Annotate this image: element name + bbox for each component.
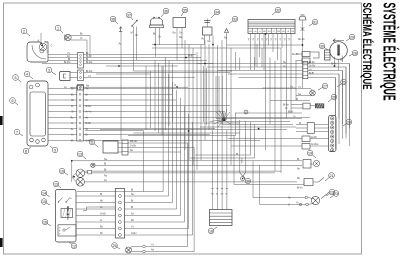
svg-text:Gr-Bl: Gr-Bl bbox=[100, 213, 106, 216]
svg-text:Br: Br bbox=[131, 200, 134, 203]
svg-text:35: 35 bbox=[183, 8, 187, 12]
svg-text:Ar: Ar bbox=[100, 219, 103, 222]
svg-text:Gr: Gr bbox=[287, 38, 290, 41]
junction star bbox=[222, 118, 225, 121]
junction headlamp A bbox=[40, 42, 42, 44]
svg-text:Bi-Ro: Bi-Ro bbox=[64, 61, 71, 64]
svg-text:Gr: Gr bbox=[260, 38, 263, 41]
svg-text:Bi-Vs: Bi-Vs bbox=[297, 187, 303, 189]
callout 22 bbox=[329, 189, 335, 195]
wire Br from position lamp bbox=[71, 35, 90, 37]
callout 12 bbox=[71, 243, 77, 249]
ground terminal 20 bbox=[239, 120, 241, 173]
switch 38 bbox=[120, 27, 122, 32]
wires instrument cluster bbox=[48, 88, 77, 90]
connector strip small bbox=[78, 85, 84, 91]
callout 36 bbox=[163, 8, 169, 14]
callout 23 bbox=[333, 191, 339, 197]
callout 7 bbox=[14, 129, 20, 135]
resistor 26 bbox=[303, 103, 310, 109]
svg-text:34: 34 bbox=[215, 10, 219, 14]
svg-text:A: A bbox=[38, 39, 40, 43]
connector strip 2 bbox=[115, 189, 124, 239]
svg-text:B: B bbox=[45, 40, 47, 44]
svg-text:3: 3 bbox=[48, 68, 50, 72]
CDI unit 18 bbox=[210, 210, 233, 226]
indicator lamp 27 bbox=[310, 90, 316, 96]
magneto flywheel 28-29 bbox=[330, 42, 348, 60]
svg-text:6: 6 bbox=[12, 99, 14, 103]
callout 3 bbox=[46, 67, 52, 73]
svg-text:Gr: Gr bbox=[71, 88, 74, 91]
svg-text:Gr-Bl: Gr-Bl bbox=[311, 136, 317, 139]
svg-text:Ar: Ar bbox=[71, 122, 74, 125]
svg-text:Gr: Gr bbox=[179, 32, 182, 35]
svg-text:C: C bbox=[51, 44, 53, 48]
svg-text:5: 5 bbox=[15, 76, 17, 80]
left registration tab lower bbox=[0, 238, 3, 247]
license plate lamp bbox=[126, 247, 132, 253]
svg-text:M: M bbox=[296, 99, 298, 101]
svg-text:Gr: Gr bbox=[274, 38, 277, 41]
svg-text:Gr: Gr bbox=[283, 65, 286, 68]
svg-text:Bi-M: Bi-M bbox=[288, 112, 293, 114]
callout 25 bbox=[341, 79, 347, 85]
svg-text:Bi-Bl: Bi-Bl bbox=[309, 73, 314, 75]
svg-text:32: 32 bbox=[276, 8, 280, 12]
tail lamp lower bbox=[76, 178, 84, 186]
connector 11 bbox=[122, 140, 128, 155]
wire to stop lamp upper bbox=[253, 161, 295, 198]
svg-text:Mn-Ne: Mn-Ne bbox=[130, 141, 138, 143]
callout 35 bbox=[182, 7, 188, 13]
svg-text:Bi-Ro: Bi-Ro bbox=[86, 61, 93, 64]
svg-text:14: 14 bbox=[42, 191, 46, 195]
junction headlamp B bbox=[41, 44, 43, 46]
svg-text:Gr: Gr bbox=[251, 38, 254, 41]
switch 21 bbox=[304, 179, 313, 186]
HT coil 30 bbox=[325, 50, 331, 60]
diode 33 bbox=[225, 29, 229, 33]
svg-text:M: M bbox=[216, 194, 218, 196]
svg-text:30: 30 bbox=[320, 44, 324, 48]
svg-text:Gr: Gr bbox=[247, 38, 250, 41]
condenser 34 bbox=[203, 27, 213, 35]
wire headlamp feed bbox=[40, 33, 42, 44]
left connector of strip24 bbox=[307, 123, 314, 134]
headlamp bulb bbox=[39, 43, 47, 51]
callout 20 bbox=[245, 178, 251, 184]
wires right strip bbox=[308, 63, 350, 65]
svg-text:20: 20 bbox=[246, 179, 250, 183]
callout 27 bbox=[322, 83, 328, 89]
svg-text:25: 25 bbox=[342, 80, 346, 84]
svg-text:Gr: Gr bbox=[100, 206, 103, 209]
svg-text:Br: Br bbox=[104, 168, 107, 171]
svg-text:21: 21 bbox=[330, 174, 334, 178]
wires from junction box 32 bbox=[250, 34, 252, 61]
wires strip mid right bbox=[84, 72, 231, 74]
svg-text:16: 16 bbox=[43, 220, 47, 224]
svg-text:1: 1 bbox=[57, 26, 59, 30]
callout 9 bbox=[52, 147, 58, 153]
CDI wires bbox=[212, 130, 214, 210]
svg-text:Bi-Ro: Bi-Ro bbox=[86, 139, 93, 142]
svg-text:Gr-Rs: Gr-Rs bbox=[309, 65, 316, 68]
stop lamp 23 bbox=[311, 196, 319, 204]
callout 2 bbox=[21, 28, 27, 34]
svg-text:28: 28 bbox=[353, 51, 357, 55]
svg-text:Bi-Rs: Bi-Rs bbox=[309, 62, 315, 64]
callout 21 bbox=[329, 173, 335, 179]
svg-text:38: 38 bbox=[111, 17, 115, 21]
svg-text:Ar-Ys: Ar-Ys bbox=[86, 111, 93, 114]
svg-text:7: 7 bbox=[16, 130, 18, 134]
wire strip small bbox=[70, 86, 78, 88]
callout 37 bbox=[126, 12, 132, 18]
junction box 32 bbox=[248, 20, 295, 34]
callout 15 bbox=[41, 199, 47, 205]
svg-text:Mr: Mr bbox=[71, 93, 74, 96]
svg-text:Gr: Gr bbox=[283, 38, 286, 41]
svg-text:Gr: Gr bbox=[293, 116, 296, 119]
svg-text:12: 12 bbox=[72, 244, 76, 248]
flasher relay 19 bbox=[303, 160, 311, 169]
wires 11 bbox=[118, 142, 122, 144]
svg-text:Gr: Gr bbox=[256, 38, 259, 41]
connector boxes 19 area bbox=[302, 136, 310, 142]
svg-text:D: D bbox=[47, 50, 49, 54]
switch 37 bbox=[132, 21, 137, 27]
step wire bbox=[83, 207, 115, 211]
callout 29 bbox=[349, 34, 355, 40]
connector 3 bbox=[60, 72, 71, 81]
svg-text:Br: Br bbox=[86, 93, 89, 96]
callout 6 bbox=[10, 98, 16, 104]
pilot lamp strip 24 bbox=[329, 116, 337, 152]
callout 13 bbox=[77, 151, 83, 157]
ignition switch housing bbox=[56, 190, 77, 243]
callout 4 bbox=[24, 71, 30, 77]
small marker bbox=[244, 110, 248, 114]
svg-text:Bi-Bl: Bi-Bl bbox=[188, 56, 193, 58]
callout 26 bbox=[331, 94, 337, 100]
wire Vi from position lamp bbox=[71, 39, 87, 41]
coil connector boxes bbox=[302, 52, 310, 57]
svg-text:Gr: Gr bbox=[278, 38, 281, 41]
svg-text:Ys-Br: Ys-Br bbox=[130, 145, 136, 148]
svg-text:Gr: Gr bbox=[269, 38, 272, 41]
svg-text:Bi-Bl: Bi-Bl bbox=[86, 122, 92, 125]
svg-text:SYSTÈME ÉLECTRIQUE: SYSTÈME ÉLECTRIQUE bbox=[380, 3, 400, 101]
ignition lower block bbox=[58, 225, 76, 236]
svg-text:25: 25 bbox=[113, 244, 117, 248]
resistor box 11 bbox=[103, 141, 118, 153]
wires headlight to connector bbox=[48, 54, 78, 56]
wires strip upper right bbox=[84, 54, 197, 56]
svg-text:Gr-Ros: Gr-Ros bbox=[311, 143, 319, 146]
callout 24 bbox=[346, 119, 352, 125]
svg-text:8: 8 bbox=[25, 149, 27, 153]
svg-text:Ro-Rs: Ro-Rs bbox=[298, 39, 305, 41]
callout 11 bbox=[89, 139, 95, 145]
callout 10 bbox=[59, 168, 65, 174]
svg-text:Mr: Mr bbox=[100, 232, 103, 235]
svg-text:Br: Br bbox=[80, 32, 83, 36]
svg-text:4: 4 bbox=[26, 72, 28, 76]
horn 36 bbox=[151, 18, 163, 25]
right connector strip bbox=[303, 61, 308, 78]
tail lamp upper bbox=[76, 169, 84, 177]
callout 19 bbox=[307, 150, 313, 156]
svg-text:19: 19 bbox=[308, 151, 312, 155]
svg-text:Gr: Gr bbox=[71, 105, 74, 108]
svg-text:Ne-Rs: Ne-Rs bbox=[292, 54, 299, 56]
svg-text:18: 18 bbox=[209, 229, 213, 233]
brake switch 35 bbox=[173, 18, 186, 28]
svg-text:G-Ro: G-Ro bbox=[131, 233, 137, 235]
callout 32 bbox=[275, 7, 281, 13]
instrument cluster housing bbox=[27, 81, 48, 146]
svg-text:23: 23 bbox=[334, 192, 338, 196]
svg-text:36: 36 bbox=[164, 9, 168, 13]
callout 16 bbox=[42, 219, 48, 225]
svg-text:9: 9 bbox=[54, 148, 56, 152]
svg-text:Gr: Gr bbox=[158, 36, 161, 39]
callout 30 bbox=[319, 43, 325, 49]
ignition fuse block bbox=[61, 209, 73, 218]
svg-text:37: 37 bbox=[127, 13, 131, 17]
callout 28 bbox=[352, 50, 358, 56]
callout 25 bbox=[112, 243, 118, 249]
connector strip upper bbox=[78, 53, 84, 69]
svg-text:24: 24 bbox=[347, 120, 351, 124]
svg-text:31: 31 bbox=[313, 20, 317, 24]
svg-text:33: 33 bbox=[233, 17, 237, 21]
ignition contacts bbox=[59, 198, 63, 203]
svg-text:15: 15 bbox=[42, 200, 46, 204]
wire mesh bbox=[152, 44, 205, 46]
svg-text:CaCh: CaCh bbox=[240, 158, 242, 164]
wires from magneto bbox=[334, 57, 336, 67]
svg-text:Mr: Mr bbox=[71, 139, 74, 142]
svg-text:27: 27 bbox=[323, 84, 327, 88]
tail lamp small bbox=[91, 163, 95, 167]
svg-text:2: 2 bbox=[23, 29, 25, 33]
callout 33 bbox=[232, 16, 238, 22]
svg-text:10: 10 bbox=[60, 169, 64, 173]
callout 8 bbox=[23, 148, 29, 154]
svg-text:29: 29 bbox=[350, 35, 354, 39]
connector strip instrument bbox=[77, 86, 83, 142]
svg-text:M: M bbox=[299, 123, 301, 125]
svg-text:13: 13 bbox=[54, 182, 58, 186]
callout 1 bbox=[55, 25, 61, 31]
junction dots bbox=[223, 119, 225, 121]
tail light bus bbox=[71, 161, 73, 182]
position lamp bbox=[65, 34, 71, 40]
svg-text:M: M bbox=[131, 32, 133, 35]
svg-text:13: 13 bbox=[78, 152, 82, 156]
callout 18 bbox=[208, 228, 214, 234]
svg-text:Bi-Ro: Bi-Ro bbox=[86, 70, 93, 73]
connector strip mid bbox=[78, 70, 84, 81]
callout 31 bbox=[312, 19, 318, 25]
svg-text:Bi-Ne: Bi-Ne bbox=[283, 104, 289, 106]
left registration tab upper bbox=[0, 116, 3, 125]
callout 34 bbox=[214, 9, 220, 15]
wires connector3 to strip bbox=[70, 72, 78, 74]
headlight housing bbox=[27, 42, 48, 62]
callout 38 bbox=[110, 16, 116, 22]
svg-text:Bi-Mr: Bi-Mr bbox=[86, 105, 92, 108]
wires ignition to connector bbox=[76, 195, 115, 197]
svg-text:SCHÉMA ÉLECTRIQUE: SCHÉMA ÉLECTRIQUE bbox=[360, 3, 375, 90]
callout 5 bbox=[13, 75, 19, 81]
wire to stop lamp lower bbox=[260, 165, 295, 204]
callout 14 bbox=[41, 190, 47, 196]
callout 13 bbox=[53, 181, 59, 187]
wires connector2 staircase bbox=[77, 191, 163, 193]
svg-text:Vi: Vi bbox=[80, 36, 83, 40]
spark plug 31 bbox=[299, 17, 306, 21]
